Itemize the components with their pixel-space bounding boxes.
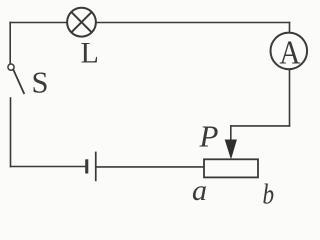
ammeter U1 circle — [271, 33, 308, 70]
lamp L cross — [71, 12, 91, 32]
svg-text:L: L — [81, 37, 99, 70]
wire left upper (corner to switch pivot) — [9, 23, 11, 65]
battery negative plate (thick short) — [85, 159, 88, 173]
svg-text:P: P — [199, 119, 219, 154]
rheostat slider arrowhead — [225, 140, 237, 160]
wire bottom left (corner to battery) — [11, 166, 86, 168]
svg-text:b: b — [263, 178, 275, 205]
switch S pivot — [8, 64, 14, 70]
wire slider stem — [230, 126, 232, 142]
wire top from left corner to right corner — [10, 22, 289, 24]
svg-text:a: a — [192, 174, 207, 205]
lamp L circle — [67, 8, 96, 37]
svg-text:A: A — [279, 34, 300, 71]
wire bottom right (battery to rheostat) — [96, 166, 204, 168]
wire right vertical (top corner through ammeter down) — [289, 23, 291, 126]
switch S blade — [13, 70, 24, 94]
wire horizontal to slider — [231, 125, 290, 127]
svg-text:S: S — [32, 65, 49, 99]
wire left lower (switch to bottom corner) — [10, 98, 12, 167]
battery positive plate (thin long) — [95, 152, 97, 182]
rheostat body — [204, 159, 258, 177]
